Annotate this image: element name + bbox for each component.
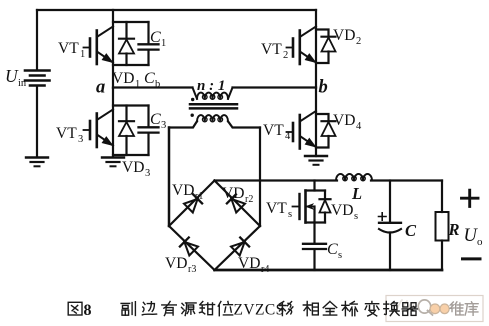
diode VD3 (antiparallel, in box) xyxy=(113,106,149,156)
diode VDr2 xyxy=(227,194,245,212)
polarity dot (secondary) xyxy=(191,114,194,117)
diode VD2 (antiparallel) xyxy=(316,30,336,64)
wire bridge edge upper-left xyxy=(169,181,215,227)
svg-text:s: s xyxy=(354,211,358,222)
svg-text:C: C xyxy=(405,221,417,240)
capacitor C3 xyxy=(113,106,159,156)
wire output bottom rail xyxy=(215,269,443,272)
watermark char 库 xyxy=(465,302,478,316)
wire output top rail (right of L) xyxy=(371,179,442,181)
transformer secondary winding xyxy=(169,115,260,127)
svg-text:VD: VD xyxy=(112,70,134,87)
caption 钳 xyxy=(200,302,215,315)
svg-text:C: C xyxy=(150,111,161,128)
ground (under VT4) xyxy=(305,156,327,165)
svg-text:b: b xyxy=(319,78,328,98)
svg-text:4: 4 xyxy=(356,121,362,132)
label VD4 xyxy=(333,112,362,132)
label C1 xyxy=(150,29,166,49)
svg-text:a: a xyxy=(96,78,105,98)
label Uin xyxy=(5,66,27,89)
caption 变 xyxy=(365,301,379,316)
label Cs xyxy=(327,241,342,261)
svg-text:C: C xyxy=(144,70,155,87)
ground (input source) xyxy=(26,158,48,167)
svg-text:C: C xyxy=(150,29,161,46)
svg-text:VD: VD xyxy=(122,159,144,176)
label VDr3 xyxy=(165,255,196,275)
capacitor Cs xyxy=(303,223,326,271)
wire bridge edge lower-right xyxy=(215,226,261,270)
caption 有 xyxy=(162,301,177,315)
diode VDr3 xyxy=(180,238,198,256)
transformer core xyxy=(190,104,237,108)
transistor VT1 (IGBT) xyxy=(84,27,114,65)
inductor L xyxy=(336,174,372,181)
svg-text:VD: VD xyxy=(238,255,260,272)
svg-text:o: o xyxy=(477,236,483,248)
svg-text:3: 3 xyxy=(78,134,83,145)
svg-text:s: s xyxy=(288,209,292,220)
wire bridge edge lower-left xyxy=(169,226,215,270)
wire output top rail (left of L) xyxy=(215,179,338,181)
caption 图 xyxy=(68,302,82,315)
caption 位 xyxy=(218,302,233,316)
wire bridge edge upper-right xyxy=(215,181,261,227)
watermark box xyxy=(386,296,483,322)
caption 移 xyxy=(279,302,293,316)
svg-text:VD: VD xyxy=(333,27,355,44)
svg-text:1: 1 xyxy=(80,49,85,60)
wire VT4 leg xyxy=(315,88,317,157)
diode VDr4 xyxy=(231,238,249,256)
label C3 xyxy=(150,111,166,131)
svg-text:L: L xyxy=(351,184,362,203)
wire VT3 leg xyxy=(112,88,114,157)
svg-text:2: 2 xyxy=(283,50,288,61)
svg-text:C: C xyxy=(327,241,338,258)
transistor VT4 (IGBT) xyxy=(287,111,317,149)
svg-text:VD: VD xyxy=(165,255,187,272)
svg-text:VT: VT xyxy=(261,41,282,58)
watermark char 维 xyxy=(450,302,463,315)
output minus sign xyxy=(463,257,481,260)
wire VT1 leg xyxy=(112,10,114,88)
svg-text:in: in xyxy=(18,78,27,89)
svg-text:VD: VD xyxy=(331,202,353,219)
svg-text:VT: VT xyxy=(263,122,284,139)
diode VD4 (antiparallel) xyxy=(316,114,336,148)
wire primary to node b xyxy=(233,86,317,88)
watermark faint script xyxy=(396,300,414,312)
label VTs xyxy=(266,200,292,220)
transformer primary winding xyxy=(193,88,233,100)
svg-text:3: 3 xyxy=(145,168,150,179)
resistor R (load) xyxy=(436,181,449,271)
svg-text:VT: VT xyxy=(58,40,79,57)
capacitor C1 xyxy=(113,22,159,65)
transistor VT3 (IGBT) xyxy=(84,110,114,148)
svg-text:r3: r3 xyxy=(188,264,196,275)
label Uo xyxy=(464,226,484,248)
svg-text:b: b xyxy=(155,79,160,90)
wire VT2 leg xyxy=(315,10,317,88)
caption 全 xyxy=(323,302,337,316)
svg-text:r4: r4 xyxy=(261,264,269,275)
label VDs xyxy=(331,202,358,222)
node a wire to transformer xyxy=(113,86,193,88)
svg-text:VT: VT xyxy=(56,125,77,142)
label VT3 xyxy=(56,125,83,145)
svg-text:8: 8 xyxy=(84,302,92,319)
caption 桥 xyxy=(342,302,358,316)
svg-text:R: R xyxy=(448,220,460,239)
label VD1 xyxy=(112,70,140,90)
label Cb xyxy=(144,70,160,90)
wire secondary left vertical xyxy=(168,128,171,227)
label VT2 xyxy=(261,41,288,61)
polarity dot (primary) xyxy=(191,98,194,101)
wire input left rail lower xyxy=(36,86,38,157)
watermark Q xyxy=(418,300,432,315)
diode VDr1 xyxy=(184,194,202,212)
ground (under VT3) xyxy=(102,158,124,167)
label VDr2 xyxy=(222,185,253,205)
svg-text:VD: VD xyxy=(333,112,355,129)
svg-text:ZVZCS: ZVZCS xyxy=(234,302,285,319)
battery Uin xyxy=(25,71,50,86)
transistor VT2 (IGBT) xyxy=(287,27,317,65)
label VT1 xyxy=(58,40,85,60)
output plus sign xyxy=(462,190,479,206)
svg-text:VT: VT xyxy=(266,200,287,217)
wire VTs drain stub xyxy=(313,181,315,191)
caption 源 xyxy=(182,303,197,316)
transistor VTs (MOSFET) xyxy=(293,191,326,223)
label VDr1 xyxy=(172,182,203,202)
caption 边 xyxy=(142,302,156,315)
caption 相 xyxy=(303,301,318,315)
watermark orange o o xyxy=(430,304,449,314)
caption 器 xyxy=(402,303,417,316)
svg-text:1: 1 xyxy=(135,79,140,90)
label VT4 xyxy=(263,122,291,142)
label VD2 xyxy=(333,27,361,47)
svg-text:4: 4 xyxy=(285,131,291,142)
caption 换 xyxy=(384,302,399,316)
svg-text:1: 1 xyxy=(161,38,166,49)
capacitor C (output filter, polarized) xyxy=(379,181,402,271)
label VDr4 xyxy=(238,255,269,275)
wire input left rail upper xyxy=(36,10,38,69)
svg-text:r2: r2 xyxy=(245,194,253,205)
svg-text:s: s xyxy=(338,250,342,261)
diode VD1 (antiparallel, in box) xyxy=(113,22,149,65)
svg-text:VD: VD xyxy=(172,182,194,199)
svg-text:r1: r1 xyxy=(195,191,203,202)
label VD3 xyxy=(122,159,150,179)
diode VDs (antiparallel with VTs) xyxy=(320,191,331,223)
svg-text:2: 2 xyxy=(356,36,361,47)
svg-text:3: 3 xyxy=(161,120,166,131)
caption 副 xyxy=(121,302,135,316)
svg-text:n : 1: n : 1 xyxy=(197,78,225,94)
svg-text:VD: VD xyxy=(222,185,244,202)
wire top rail xyxy=(37,9,316,11)
svg-text:U: U xyxy=(5,66,19,86)
wire secondary right vertical xyxy=(259,128,261,227)
